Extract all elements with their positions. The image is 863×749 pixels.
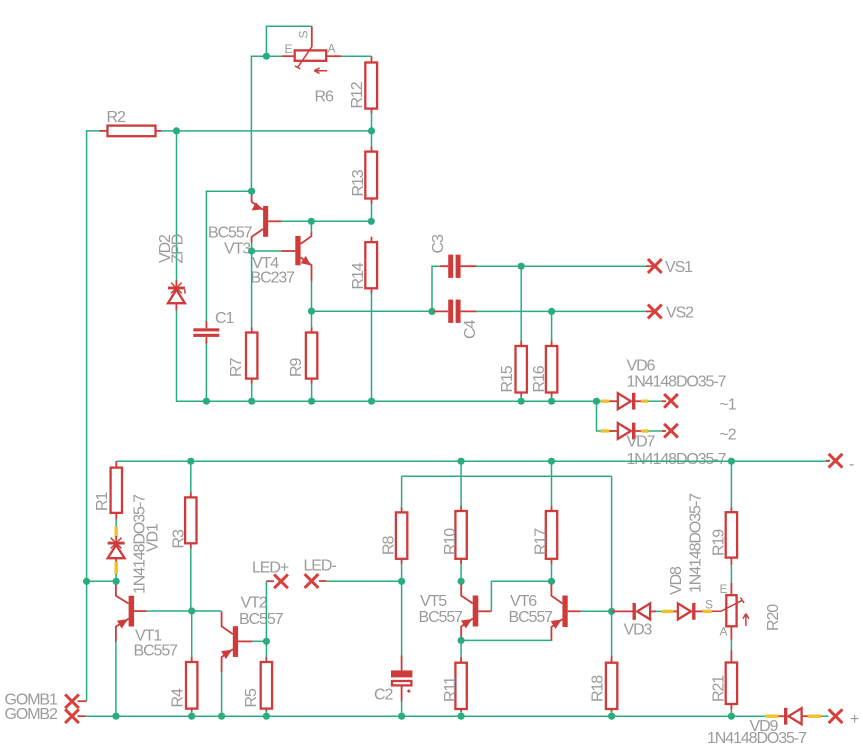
transistor VT4 BC237 bbox=[282, 232, 312, 282]
junction on left rail y581 bbox=[83, 578, 90, 585]
svg-text:VD8: VD8 bbox=[668, 566, 685, 595]
diode VD6 bbox=[618, 393, 636, 410]
wire: R12 bottom to rail bbox=[371, 113, 373, 131]
svg-text:VS2: VS2 bbox=[666, 305, 694, 322]
svg-text:GOMB2: GOMB2 bbox=[5, 706, 58, 723]
diode VD2 ZPD bbox=[168, 280, 185, 311]
junction at C1 bottom on mid rail bbox=[203, 398, 210, 405]
svg-text:R19: R19 bbox=[711, 529, 728, 556]
resistor R15 bbox=[516, 341, 527, 398]
svg-text:C4: C4 bbox=[462, 320, 479, 339]
net/pin overlap VD1 bottom bbox=[114, 562, 117, 575]
terminal ~1 bbox=[664, 394, 678, 408]
wire: VT3 collector to junction bbox=[251, 242, 253, 251]
wire: R10 top column bbox=[460, 461, 462, 506]
junction at R8 bottom / C2 top / LED- net bbox=[398, 578, 405, 585]
resistor R16 bbox=[546, 341, 557, 398]
resistor R14 bbox=[365, 237, 377, 294]
resistor R21 bbox=[726, 651, 737, 711]
wire: C2 bottom to rail bbox=[401, 701, 403, 717]
resistor R18 bbox=[606, 656, 617, 712]
svg-text:VS1: VS1 bbox=[665, 259, 693, 276]
junction at C2 bottom on bottom rail bbox=[398, 713, 405, 720]
junction at R11 bottom on bottom rail bbox=[458, 713, 465, 720]
wire: top rail y131 from R2 to R12/R13 column bbox=[161, 130, 372, 132]
svg-text:R5: R5 bbox=[243, 688, 260, 707]
wire: pot A to R12 top bbox=[341, 55, 371, 57]
diode VD7 bbox=[618, 423, 636, 440]
svg-text:VD7: VD7 bbox=[627, 434, 656, 451]
wire: R10 bottom column bbox=[460, 563, 462, 581]
pin lead to VS2 terminal bbox=[646, 310, 655, 312]
capacitor C1 bbox=[193, 321, 219, 344]
pin lead GOMB1 bbox=[78, 700, 87, 702]
wire: R7 top from VT3 collector junction bbox=[251, 251, 253, 328]
pin lead LED- bbox=[319, 580, 326, 582]
junction at R16 top bbox=[548, 308, 555, 315]
junction at VT4 collector column bbox=[308, 218, 315, 225]
wire: R16 top column bbox=[551, 311, 553, 341]
wire: base link to VT4 bbox=[252, 250, 282, 252]
junction at R10 bottom / VT5 collector bbox=[458, 578, 465, 585]
terminal VS2 bbox=[648, 305, 662, 319]
wire: branch down to VD7 bbox=[597, 401, 616, 431]
pin lead VD6 cathode bbox=[635, 400, 641, 402]
pin lead VD6 anode bbox=[609, 400, 618, 402]
svg-text:1N4148DO35-7: 1N4148DO35-7 bbox=[627, 374, 727, 391]
wire: LED- net to R8/C2 junction bbox=[326, 580, 401, 582]
wire: R15 top column bbox=[520, 266, 522, 341]
wire: VD3 to VD8 bbox=[656, 610, 662, 612]
terminal GOMB1 bbox=[65, 694, 79, 708]
wire: VD2 column from rail down bbox=[176, 131, 178, 281]
junction at VD6/VD7 branch bbox=[593, 398, 600, 405]
diode VD1 bbox=[108, 538, 125, 563]
wire: VT2 base to LED+/R5 junction bbox=[252, 640, 266, 642]
wire: pot top loop (S net) bbox=[266, 26, 311, 56]
svg-text:BC557: BC557 bbox=[239, 611, 284, 628]
wire: rail y476 from R8 top to VT6 base column bbox=[402, 475, 612, 477]
net/pin overlap VD7 left bbox=[601, 429, 609, 432]
net/pin overlap VD1 top bbox=[114, 527, 117, 537]
pin lead GOMB2 bbox=[78, 715, 86, 717]
svg-text:R2: R2 bbox=[107, 109, 126, 126]
wire: emitter rail to C3/C4 branch bbox=[312, 310, 433, 312]
svg-text:E: E bbox=[720, 582, 728, 596]
svg-text:1N4148DO35-7: 1N4148DO35-7 bbox=[132, 494, 149, 594]
resistor R9 bbox=[306, 327, 317, 384]
net/pin overlap VD8-R20 bbox=[703, 610, 712, 613]
svg-text:R6: R6 bbox=[315, 89, 334, 106]
junction at R16 bottom on mid rail bbox=[548, 398, 555, 405]
wire: branch to VD6 anode bbox=[597, 400, 616, 402]
junction at VT3 collector / VT4 base bbox=[248, 247, 255, 254]
svg-text:~1: ~1 bbox=[720, 397, 737, 414]
svg-text:+: + bbox=[850, 711, 859, 728]
svg-text:R7: R7 bbox=[228, 358, 245, 377]
svg-text:R11: R11 bbox=[442, 676, 459, 702]
svg-text:R21: R21 bbox=[711, 675, 728, 702]
wire: VD1 anode to junction bbox=[115, 574, 117, 581]
junction at VT2 emitter on bottom rail bbox=[218, 713, 225, 720]
junction at VT1 base / R4 top bbox=[188, 607, 195, 614]
wire: R1 bottom to VD1 bbox=[115, 519, 117, 528]
resistor R19 bbox=[726, 507, 737, 565]
wire: VT6 base to column junction bbox=[581, 610, 612, 612]
svg-text:BC557: BC557 bbox=[509, 609, 554, 626]
svg-text:R20: R20 bbox=[765, 604, 782, 631]
svg-text:VT3: VT3 bbox=[224, 241, 251, 258]
wire: R19 top column bbox=[730, 461, 732, 508]
wire: R13 bottom to base rail bbox=[371, 203, 373, 221]
terminal plus bbox=[829, 709, 843, 723]
transistor VT6 BC557 bbox=[551, 584, 581, 641]
capacitor C2 bbox=[391, 656, 412, 702]
wire: R9 bottom to mid rail bbox=[311, 383, 313, 401]
potentiometer R20 bbox=[712, 583, 749, 640]
junction at VD1 anode / VT1 collector bbox=[113, 578, 120, 585]
wire: R5 top column bbox=[265, 641, 267, 657]
junction at R4 bottom on bottom rail bbox=[188, 713, 195, 720]
wire: VT2 emitter down to bottom rail bbox=[221, 672, 223, 717]
wire: VT5 base up and over to R17 bottom junction bbox=[491, 581, 551, 611]
svg-text:R10: R10 bbox=[442, 528, 459, 555]
pin lead VD3 anode bbox=[650, 610, 656, 612]
junction at VT6 base / R18 column bbox=[608, 608, 615, 615]
wire: bottom rail y716 bbox=[85, 715, 765, 717]
transistor VT2 BC557 bbox=[221, 612, 252, 673]
svg-text:VT5: VT5 bbox=[420, 593, 447, 610]
wire: R14 bottom long drop to mid rail bbox=[371, 293, 373, 402]
wire: R20 A to R21 top bbox=[730, 639, 732, 652]
wire: R9 top from emitter junction bbox=[311, 311, 313, 328]
svg-text:1N4148DO35-7: 1N4148DO35-7 bbox=[627, 451, 727, 468]
svg-text:LED-: LED- bbox=[304, 558, 337, 575]
svg-text:VD6: VD6 bbox=[627, 358, 656, 375]
svg-text:R1: R1 bbox=[94, 492, 111, 511]
junction at R17 top bbox=[548, 458, 555, 465]
svg-text:BC557: BC557 bbox=[134, 643, 179, 660]
svg-text:~2: ~2 bbox=[720, 427, 737, 444]
junction at R15 bottom on mid rail bbox=[518, 398, 525, 405]
junction at R17 bottom / VT6 collector bbox=[548, 578, 555, 585]
net/pin overlap VD6 left bbox=[601, 400, 609, 403]
net/pin overlap VD9 right bbox=[808, 715, 821, 718]
wire: C4 right to VS2 bbox=[476, 310, 646, 312]
junction at R9 bottom on mid rail bbox=[308, 398, 315, 405]
wire: R8 top column bbox=[401, 476, 403, 508]
terminal GOMB2 bbox=[65, 709, 79, 723]
svg-text:VD3: VD3 bbox=[624, 622, 653, 639]
junction at R5 bottom on bottom rail bbox=[263, 713, 270, 720]
pin lead VD8 anode bbox=[674, 610, 680, 612]
net/pin overlap VD3-VD8 bbox=[662, 610, 674, 613]
terminal VS1 bbox=[648, 259, 662, 273]
net/pin overlap VD9 left bbox=[765, 715, 778, 718]
svg-text:R18: R18 bbox=[590, 675, 607, 702]
svg-text:R4: R4 bbox=[170, 688, 187, 707]
pin lead VD1 cathode bbox=[115, 536, 117, 542]
resistor R13 bbox=[365, 146, 377, 204]
svg-text:BC557: BC557 bbox=[419, 609, 464, 626]
resistor R12 bbox=[365, 56, 377, 114]
pin lead VD3 cathode bbox=[612, 610, 633, 612]
svg-text:BC557: BC557 bbox=[208, 225, 253, 242]
resistor R1 bbox=[111, 461, 122, 519]
junction at VT2 base / R5 / LED+ bbox=[263, 638, 270, 645]
svg-text:R9: R9 bbox=[288, 358, 305, 377]
svg-text:VT2: VT2 bbox=[241, 595, 268, 612]
net/pin overlap VD6 right bbox=[641, 400, 648, 403]
wire: C1 bottom to mid rail bbox=[205, 344, 207, 402]
junction at R2 output / VD2 column bbox=[173, 127, 180, 134]
svg-text:E: E bbox=[285, 42, 293, 56]
svg-text:BC237: BC237 bbox=[251, 270, 296, 287]
svg-text:R8: R8 bbox=[381, 536, 398, 555]
wire: rail to R13 top bbox=[371, 131, 373, 147]
wire: VT4 emitter down to emitter rail bbox=[311, 281, 313, 312]
transistor VT3 BC557 bbox=[252, 194, 282, 243]
junction at R19 top bbox=[728, 458, 735, 465]
wire: VD6 to ~1 terminal bbox=[648, 400, 663, 402]
junction at R14 top bbox=[368, 218, 375, 225]
svg-text:1N4148DO35-7: 1N4148DO35-7 bbox=[688, 493, 705, 593]
potentiometer R6 bbox=[282, 26, 341, 73]
svg-text:-: - bbox=[849, 456, 854, 473]
svg-text:R3: R3 bbox=[171, 529, 188, 548]
svg-text:ZPD: ZPD bbox=[170, 234, 187, 263]
wire: C3 right to VS1 bbox=[476, 265, 646, 267]
resistor R4 bbox=[186, 656, 197, 712]
junction at R12 bottom / R13 top bbox=[368, 127, 375, 134]
wire: R17 top column bbox=[551, 461, 553, 506]
wire: emitter rail VT5-VT6 bbox=[461, 639, 551, 641]
wire: R11 top column bbox=[460, 640, 462, 658]
wire: R4 top column bbox=[191, 611, 193, 657]
pin lead ~2 bbox=[662, 430, 666, 432]
junction at R3 top bbox=[187, 458, 194, 465]
junction at R7 bottom on mid rail bbox=[248, 398, 255, 405]
terminal LED+ bbox=[274, 574, 288, 588]
svg-text:S: S bbox=[297, 30, 311, 38]
junction at C3/C4 branch bbox=[428, 308, 435, 315]
wire: R16 bottom to mid rail bbox=[551, 396, 553, 401]
wire: R5 bottom to rail bbox=[265, 711, 267, 716]
svg-text:R14: R14 bbox=[350, 262, 367, 289]
pin lead VD7 anode bbox=[609, 430, 618, 432]
wire: R8 bottom column bbox=[401, 563, 403, 581]
resistor R17 bbox=[546, 506, 557, 565]
wire: R21 bottom to rail bbox=[730, 709, 732, 716]
wire: E net from corner down to VT3 emitter bbox=[251, 56, 282, 191]
wire: left rail from R2 down to GOMB1 bbox=[87, 131, 104, 701]
pin lead ~1 bbox=[662, 400, 666, 402]
transistor VT1 BC557 bbox=[116, 584, 146, 642]
wire: branch up to C3 left lead bbox=[432, 266, 441, 311]
junction at VT1 emitter on bottom rail bbox=[112, 713, 119, 720]
svg-text:LED+: LED+ bbox=[252, 560, 289, 577]
junction at R14 bottom on mid rail bbox=[368, 398, 375, 405]
junction at VT3 emitter / E net bbox=[248, 188, 255, 195]
svg-text:VT6: VT6 bbox=[510, 593, 537, 610]
wire: R11 bottom to rail bbox=[460, 711, 462, 716]
svg-text:C3: C3 bbox=[430, 234, 447, 253]
resistor R10 bbox=[455, 506, 466, 565]
pin lead to VS1 terminal bbox=[646, 265, 655, 267]
resistor R11 bbox=[455, 657, 466, 712]
junction at pot E bbox=[263, 53, 270, 60]
resistor R3 bbox=[185, 492, 196, 549]
wire: R19 bottom to R20 E bbox=[730, 564, 732, 584]
wire: R3 bottom to VT1 base junction bbox=[190, 548, 192, 611]
junction at R18 bottom on bottom rail bbox=[608, 713, 615, 720]
net/pin overlap VD7 right bbox=[641, 429, 648, 432]
resistor R7 bbox=[246, 327, 257, 384]
wire: minus rail y461 bbox=[116, 460, 829, 462]
pin lead VD7 cathode bbox=[635, 430, 641, 432]
wire: VT1 emitter down to bottom rail bbox=[115, 641, 117, 716]
junction at VT4 emitter / R9 top bbox=[308, 308, 315, 315]
junction at R15 top bbox=[518, 263, 525, 270]
capacitor C3 bbox=[440, 255, 477, 278]
diode VD9 bbox=[784, 708, 802, 725]
terminal ~2 bbox=[664, 424, 678, 438]
svg-text:A: A bbox=[720, 625, 728, 639]
svg-text:R17: R17 bbox=[533, 528, 550, 555]
svg-text:1N4148DO35-7: 1N4148DO35-7 bbox=[707, 730, 807, 747]
svg-text:R13: R13 bbox=[350, 169, 367, 196]
svg-text:S: S bbox=[705, 598, 713, 612]
junction at R21 bottom on bottom rail bbox=[728, 713, 735, 720]
svg-text:R16: R16 bbox=[531, 365, 548, 392]
capacitor C4 bbox=[434, 300, 477, 323]
junction at R10 top bbox=[458, 458, 465, 465]
diode VD8 bbox=[678, 603, 696, 620]
wire: VD2 bottom down and mid rail y401 to VD6 junction bbox=[177, 310, 597, 401]
pin lead VD9 cathode bbox=[779, 715, 786, 717]
svg-text:C2: C2 bbox=[374, 687, 393, 704]
resistor R5 bbox=[261, 656, 272, 712]
wire: VD9 to plus terminal bbox=[821, 715, 829, 717]
wire: R3 top column bbox=[190, 461, 192, 493]
wire: link on y581 from left rail to VD1 column bbox=[87, 580, 117, 582]
wire: VT1 base to VT2 collector corner bbox=[146, 610, 221, 612]
resistor R2 bbox=[100, 126, 162, 137]
pin lead VD9 anode bbox=[802, 715, 808, 717]
wire: R17 bottom column bbox=[551, 563, 553, 581]
pin lead VD8 cathode bbox=[695, 610, 702, 612]
junction at VT5 emitter / R11 top bbox=[458, 637, 465, 644]
svg-text:C1: C1 bbox=[215, 310, 234, 327]
diode VD3 bbox=[633, 603, 651, 620]
transistor VT5 BC557 bbox=[461, 584, 491, 641]
wire: VD7 to ~2 terminal bbox=[648, 430, 663, 432]
pin lead minus terminal bbox=[826, 460, 830, 462]
wire: R7 bottom to mid rail bbox=[251, 383, 253, 401]
terminal LED- bbox=[305, 574, 319, 588]
wire: base rail VT3 to R13/R14 column bbox=[281, 220, 371, 222]
wire: R4 bottom to rail bbox=[191, 711, 193, 716]
pin lead LED+ bbox=[266, 580, 274, 582]
terminal minus bbox=[829, 454, 843, 468]
wire: C2 column from LED- junction bbox=[401, 581, 403, 656]
svg-text:A: A bbox=[328, 42, 336, 56]
svg-text:R12: R12 bbox=[349, 81, 366, 108]
wire: R15 bottom to mid rail bbox=[520, 396, 522, 401]
svg-text:R15: R15 bbox=[499, 365, 516, 392]
wire: R18 column from rail y476 down bbox=[611, 476, 613, 657]
resistor R8 bbox=[396, 507, 407, 564]
wire: LED+ column up bbox=[265, 581, 267, 641]
wire: VT4 collector up to base rail bbox=[310, 221, 312, 232]
wire: R18 bottom to rail bbox=[611, 711, 613, 716]
wire: E net left branch to C1 column bbox=[206, 191, 251, 322]
